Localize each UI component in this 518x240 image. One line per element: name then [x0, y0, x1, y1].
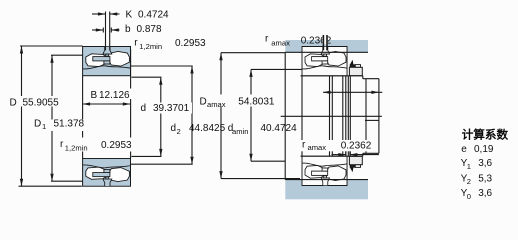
svg-text:55.9055: 55.9055	[23, 98, 60, 109]
svg-text:54.8031: 54.8031	[238, 97, 275, 108]
svg-text:51.378: 51.378	[54, 119, 85, 130]
svg-text:0.2953: 0.2953	[175, 38, 206, 49]
svg-text:K: K	[126, 9, 133, 20]
svg-text:0.2953: 0.2953	[101, 140, 132, 151]
svg-text:B: B	[91, 90, 98, 101]
svg-text:1,2min: 1,2min	[139, 42, 162, 51]
svg-text:12.126: 12.126	[99, 90, 130, 101]
svg-text:计算系数: 计算系数	[462, 127, 509, 141]
svg-text:d: d	[141, 103, 147, 114]
svg-text:amax: amax	[271, 38, 290, 47]
svg-text:1,2min: 1,2min	[65, 144, 88, 153]
svg-text:D: D	[200, 97, 207, 108]
svg-text:40.4724: 40.4724	[261, 123, 298, 134]
svg-text:1: 1	[467, 162, 471, 171]
svg-text:D: D	[34, 119, 41, 130]
svg-text:0: 0	[467, 192, 471, 201]
svg-text:r: r	[265, 33, 269, 44]
svg-text:amax: amax	[207, 100, 226, 109]
svg-text:r: r	[134, 38, 138, 49]
svg-text:0.878: 0.878	[137, 24, 162, 35]
svg-text:2: 2	[467, 177, 471, 186]
svg-text:e: e	[461, 144, 467, 155]
svg-text:3,6: 3,6	[478, 158, 492, 169]
svg-text:44.8425: 44.8425	[189, 123, 226, 134]
svg-text:2: 2	[177, 127, 181, 136]
svg-text:0.2362: 0.2362	[341, 141, 372, 152]
svg-text:amin: amin	[232, 127, 248, 136]
svg-text:0,19: 0,19	[474, 144, 494, 155]
svg-text:3,6: 3,6	[478, 188, 492, 199]
svg-text:b: b	[125, 24, 131, 35]
svg-text:amax: amax	[308, 143, 327, 152]
svg-text:1: 1	[42, 122, 46, 131]
svg-text:5,3: 5,3	[478, 173, 492, 184]
svg-text:39.3701: 39.3701	[153, 103, 190, 114]
svg-text:0.4724: 0.4724	[138, 9, 169, 20]
svg-text:D: D	[10, 98, 17, 109]
svg-text:d: d	[171, 123, 177, 134]
